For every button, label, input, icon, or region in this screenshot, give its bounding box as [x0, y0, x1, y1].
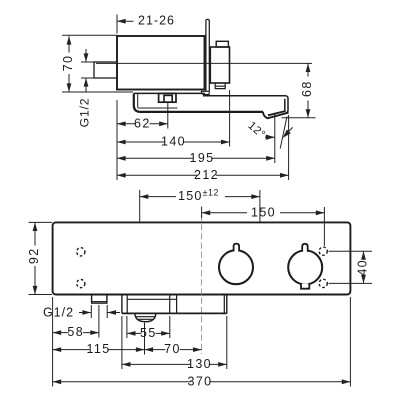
svg-text:40: 40	[356, 259, 370, 276]
G1/2 supply connector (side view)	[94, 62, 117, 78]
extension line body bottom	[62, 91, 133, 93]
dimension 130	[122, 363, 190, 365]
left knob (thermostat)	[219, 250, 253, 284]
12 degree angle leg	[280, 117, 287, 149]
right knob (volume/select)	[288, 250, 322, 284]
extension line spout box right	[169, 316, 171, 338]
adapter tab	[215, 83, 225, 89]
svg-text:70: 70	[164, 342, 181, 356]
dimension 62	[117, 123, 135, 125]
svg-text:195: 195	[189, 151, 214, 165]
dimension 115	[53, 349, 90, 351]
svg-text:58: 58	[67, 325, 84, 339]
svg-text:21-26: 21-26	[138, 13, 175, 27]
svg-text:62: 62	[134, 116, 151, 130]
extension line connector bottom	[81, 77, 95, 79]
extension line housing right	[226, 316, 228, 369]
svg-text:150: 150	[251, 205, 276, 219]
aerator dome (front view)	[135, 313, 156, 321]
dimension 92 (vertical)	[29, 221, 53, 223]
outlet housing below plate (front view)	[121, 295, 123, 314]
dimension 70 (front view)	[145, 349, 166, 351]
screw hole bottom-left	[77, 280, 85, 288]
extension line nozzle centre	[274, 113, 276, 163]
svg-text:68: 68	[300, 80, 314, 97]
dimension 150 plus/minus 12	[139, 190, 141, 222]
extension line socket centre	[167, 103, 169, 129]
spout end cap	[285, 96, 288, 114]
dimension 140	[117, 141, 164, 143]
shelf inner bottom line	[138, 107, 178, 109]
svg-text:70: 70	[61, 55, 75, 72]
escutcheon wall plate (side view)	[206, 19, 209, 91]
extension line nipple centre	[98, 305, 100, 338]
extension line adapter right	[229, 90, 231, 147]
shelf and spout underbody (side view)	[134, 93, 263, 112]
adapter boss	[216, 41, 228, 47]
screw hole bottom-right	[319, 279, 327, 287]
svg-text:212: 212	[194, 168, 219, 182]
extension line nipple left	[90, 305, 92, 318]
extension line housing left	[121, 316, 123, 369]
shelf top edge	[134, 92, 205, 94]
dimension 150	[201, 207, 203, 219]
shelf inner edge line	[137, 94, 139, 107]
spout nozzle tilted 12deg	[263, 111, 289, 118]
screw hole top-left	[77, 248, 85, 256]
dimension 21-26	[116, 15, 118, 34]
svg-text:115: 115	[86, 342, 110, 356]
extension line body front	[116, 100, 118, 180]
dimension 55	[127, 332, 141, 334]
handshower holder socket (side view)	[159, 93, 176, 102]
extension line connector top	[81, 61, 95, 63]
extension line nipple right	[106, 305, 108, 318]
svg-text:G1/2: G1/2	[78, 98, 92, 128]
svg-text:130: 130	[187, 357, 212, 371]
mixer body (side view)	[117, 36, 205, 90]
escutcheon foot	[201, 91, 209, 94]
G1/2 nipple (front view)	[92, 295, 107, 304]
dimension 212	[117, 174, 197, 176]
svg-text:370: 370	[187, 374, 212, 388]
dimension 195	[117, 157, 193, 159]
dimension 58	[53, 332, 69, 334]
svg-text:140: 140	[161, 135, 186, 149]
extension line spout tip	[288, 115, 290, 180]
extension line spout box left	[126, 316, 128, 338]
screw hole top-right	[319, 247, 327, 255]
extension line plate right	[349, 297, 351, 387]
svg-text:92: 92	[27, 247, 41, 264]
extension line body top	[62, 34, 117, 36]
right knob bottom tab	[301, 284, 309, 289]
svg-text:55: 55	[140, 326, 157, 340]
dimension 68 (vertical)	[282, 117, 316, 119]
dimension G1/2 connector (side view)	[85, 49, 87, 62]
dimension 70 (vertical, side view)	[68, 36, 70, 53]
extension line plate left	[52, 297, 54, 387]
dimension 370	[53, 381, 191, 383]
dimension 40 (vertical right)	[329, 250, 373, 252]
supply axis line (side view)	[96, 62, 312, 64]
extension line spout centre	[144, 323, 146, 355]
centre line	[201, 215, 203, 354]
svg-text:G1/2: G1/2	[43, 305, 74, 319]
spout arm top edge	[203, 95, 286, 97]
wall adapter (side view)	[210, 47, 229, 83]
face plate (front view)	[53, 222, 351, 294]
